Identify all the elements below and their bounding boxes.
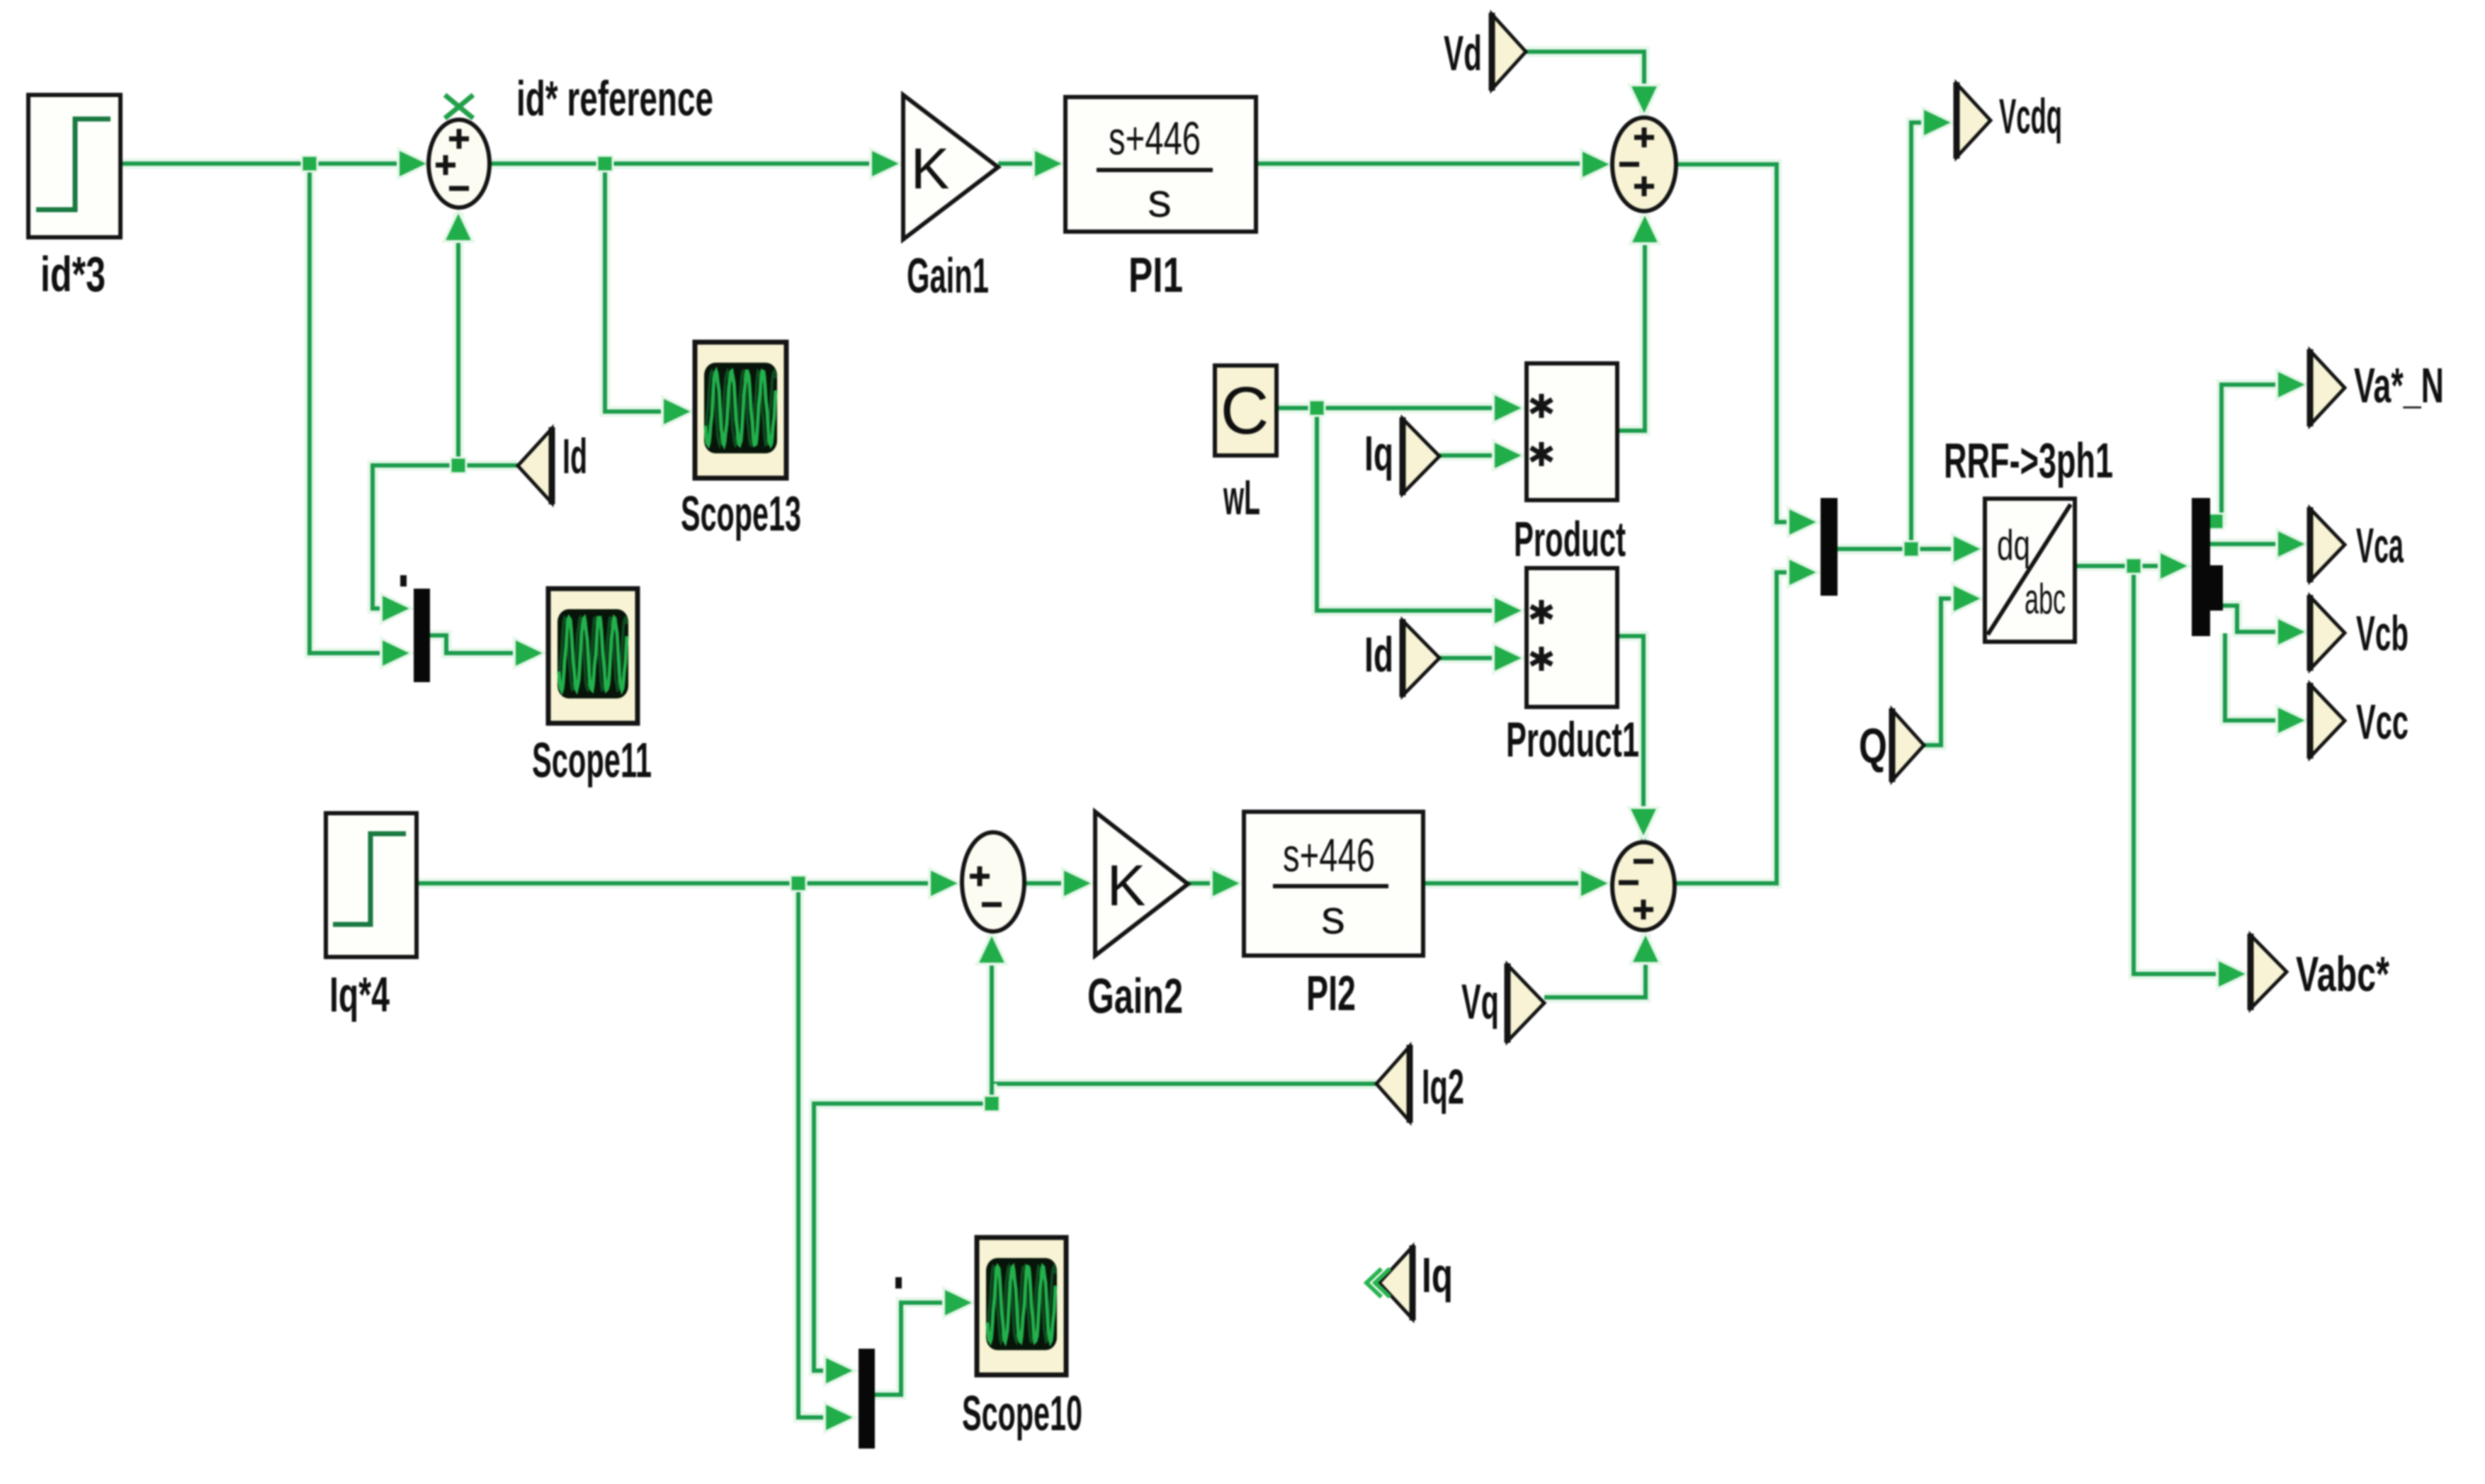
wire sum2 to mux input1 <box>1676 164 1794 522</box>
svg-text:id*3: id*3 <box>40 247 106 302</box>
wire demux out2 to Vca <box>2210 539 2281 550</box>
junction Id branch <box>451 458 466 473</box>
wire sum4 to mux input2 <box>1675 572 1794 883</box>
chevron on Iq tag <box>1366 1269 1390 1297</box>
port input Id (lower) <box>1403 619 1439 697</box>
arrowhead into mux Scope11 in1 <box>381 594 412 623</box>
wire Iq2 branch to mux Scope10 input1 <box>814 1084 992 1371</box>
arrowhead into sum3 left <box>929 868 961 898</box>
arrowhead into Vcb port <box>2277 617 2308 647</box>
port output Vabc* <box>2251 934 2287 1010</box>
junction demux out1 stub <box>2208 514 2224 529</box>
arrowhead into sum2 left <box>1581 149 1612 179</box>
arrowhead into PI1 <box>1034 149 1065 179</box>
wire mux to Scope10 <box>875 1303 948 1395</box>
wire sum1 to Gain1 <box>489 159 873 169</box>
port output Vcdq <box>1957 82 1991 159</box>
gain block Gain1 <box>903 95 998 239</box>
wire id*3 to sum1 <box>120 159 401 169</box>
svg-text:Iq2: Iq2 <box>1422 1059 1464 1114</box>
wire Gain2 to PI2 <box>1188 878 1216 889</box>
svg-text:Scope11: Scope11 <box>532 732 652 788</box>
arrowhead into Product1 in1 <box>1493 596 1524 625</box>
svg-text:Vabc*: Vabc* <box>2296 946 2390 1002</box>
mux mux for dq-abc <box>1821 498 1838 596</box>
sum junction Sum3 <box>962 832 1024 931</box>
sum junction Sum4 <box>1612 842 1675 930</box>
wire Iq to Product input2 <box>1439 451 1498 461</box>
svg-text:Iq: Iq <box>1364 426 1393 481</box>
svg-text:Iq*4: Iq*4 <box>329 967 390 1022</box>
tick above mux Scope10 <box>895 1277 902 1288</box>
arrowhead into sum2 top <box>1629 85 1659 116</box>
wire wL to Product input1 <box>1277 403 1498 414</box>
mux mux for Scope10 <box>859 1349 875 1449</box>
arrowhead into Scope10 <box>944 1288 975 1318</box>
arrowhead into Vabc* port <box>2217 959 2248 989</box>
mark X above sum1 <box>445 95 473 118</box>
wire Iq*4 branch to mux Scope10 input2 <box>798 883 827 1417</box>
junction wL branch <box>1309 400 1325 416</box>
arrowhead into Vcc port <box>2277 706 2308 735</box>
svg-text:PI1: PI1 <box>1128 247 1183 302</box>
svg-text:s: s <box>1321 890 1345 944</box>
arrowhead into mux Scope10 in1 <box>825 1356 856 1386</box>
wire Iq2 to sum3 bottom <box>992 935 1376 1084</box>
wire branch to Scope13 <box>605 164 667 412</box>
svg-text:abc: abc <box>2025 575 2066 623</box>
junction Vcdq branch <box>1903 541 1919 557</box>
transfer fn block PI2 <box>1244 812 1423 956</box>
svg-text:Scope13: Scope13 <box>681 486 801 541</box>
constant block C (wL) <box>1215 366 1277 455</box>
svg-text:s: s <box>1148 174 1172 227</box>
port output Vcb <box>2310 595 2345 671</box>
wire Id to Product1 input2 <box>1439 653 1498 664</box>
svg-text:Iq: Iq <box>1422 1247 1453 1303</box>
arrowhead into sum4 top <box>1629 808 1658 839</box>
svg-text:PI2: PI2 <box>1306 965 1356 1021</box>
wire branch to Vcdq port <box>1911 123 1928 549</box>
svg-text:C: C <box>1221 373 1269 448</box>
wire Vq to sum4 bottom <box>1544 934 1646 997</box>
wire Q to dq-abc input2 <box>1924 599 1958 745</box>
port input Id (flipped) <box>518 427 552 504</box>
junction Vabc* branch <box>2126 558 2141 574</box>
step source Iq*4 <box>326 813 417 957</box>
svg-text:RRF->3ph1: RRF->3ph1 <box>1944 433 2113 488</box>
arrowhead into Vcdq port <box>1923 108 1954 137</box>
arrowhead into Va*_N port <box>2277 370 2308 400</box>
svg-text:Vq: Vq <box>1461 974 1499 1029</box>
wire Iq*4 to sum3 <box>417 878 934 889</box>
wire sum3 to Gain2 <box>1025 878 1066 889</box>
arrowhead into dq-abc in1 <box>1952 534 1983 564</box>
sum junction Sum1 <box>429 120 489 208</box>
port input Q <box>1892 708 1924 782</box>
arrowhead into sum1 bottom <box>443 210 473 242</box>
arrowhead into Vca port <box>2277 529 2308 559</box>
wire mux to dq-abc input1 <box>1838 544 1958 555</box>
svg-text:Q: Q <box>1859 718 1887 774</box>
svg-text:wL: wL <box>1223 470 1260 525</box>
svg-text:s+446: s+446 <box>1109 112 1201 164</box>
port input Iq2 (flipped) <box>1376 1045 1410 1123</box>
arrowhead into sum4 left <box>1580 868 1611 898</box>
port input Vd <box>1492 13 1526 91</box>
scope block Scope11 <box>548 589 638 723</box>
port output Va*_N <box>2310 349 2345 426</box>
wire Product to sum2 bottom <box>1617 215 1645 431</box>
svg-text:Vca: Vca <box>2356 518 2404 573</box>
arrowhead into Product in1 <box>1493 393 1524 423</box>
svg-text:Id: Id <box>1364 627 1393 682</box>
step source id*3 <box>28 95 120 237</box>
junction id*3 branch <box>302 156 317 171</box>
wire mux to Scope11 <box>430 635 517 653</box>
wire PI1 to sum2 <box>1256 159 1584 169</box>
arrowhead into Scope11 <box>514 638 545 668</box>
junction Scope13 branch <box>597 156 613 171</box>
svg-text:Vcb: Vcb <box>2356 606 2408 661</box>
tick above mux Scope11 <box>400 575 407 587</box>
wire Gain1 to PI1 <box>998 159 1038 169</box>
sum junction Sum2 <box>1612 118 1676 211</box>
port tag Iq (flipped) <box>1379 1245 1413 1320</box>
arrowhead into PI2 <box>1211 868 1242 898</box>
port input Iq <box>1403 417 1439 495</box>
arrowhead into Gain2 <box>1063 868 1094 898</box>
svg-text:id* reference: id* reference <box>516 71 713 126</box>
svg-text:Gain2: Gain2 <box>1087 968 1183 1024</box>
svg-text:Vcc: Vcc <box>2356 694 2408 749</box>
arrowhead into mux Scope10 in2 <box>825 1403 856 1432</box>
arrowhead into sum4 bottom <box>1631 932 1660 963</box>
gain block Gain2 <box>1095 812 1188 956</box>
arrowhead into Product1 in2 <box>1493 643 1524 673</box>
wire Id to mux Scope11 input1 <box>373 465 518 608</box>
wire Vd to sum2 top <box>1526 52 1644 119</box>
arrowhead into sum2 bottom <box>1630 213 1660 244</box>
transform block dq/abc (RRF->3ph1) <box>1985 499 2075 642</box>
svg-text:Product: Product <box>1514 511 1626 567</box>
port output Vca <box>2310 507 2345 582</box>
wire dq-abc to demux <box>2075 561 2165 572</box>
transfer fn block PI1 <box>1065 97 1256 232</box>
junction Iq*4 branch <box>791 876 806 891</box>
svg-text:K: K <box>1107 854 1146 918</box>
wire Product1 to sum4 top <box>1617 636 1643 840</box>
junction Iq2 branch <box>984 1096 1000 1111</box>
svg-text:Vcdq: Vcdq <box>1999 89 2062 144</box>
scope block Scope13 <box>695 342 786 478</box>
arrowhead into dq-abc in2 <box>1952 584 1983 613</box>
product block Product <box>1527 363 1617 500</box>
arrowhead into Product in2 <box>1493 441 1524 470</box>
arrowhead into sum3 bottom <box>977 933 1007 964</box>
svg-text:Va*_N: Va*_N <box>2354 358 2444 413</box>
wire demux out3 to Vcb <box>2223 606 2281 632</box>
mux mux for Scope11 <box>414 589 430 682</box>
scope block Scope10 <box>977 1237 1066 1375</box>
arrowhead into mux in2 <box>1788 557 1819 587</box>
svg-text:K: K <box>911 137 950 201</box>
demux after dq-abc <box>2192 498 2223 636</box>
arrowhead into sum1 <box>398 149 429 179</box>
svg-text:Scope10: Scope10 <box>962 1386 1082 1441</box>
wire branch to Vabc* port <box>2134 566 2223 974</box>
arrowhead into Gain1 <box>871 149 902 179</box>
wire Id branch up to sum1 minus input <box>453 213 464 465</box>
wire demux out1 to Va*_N <box>2210 385 2281 521</box>
svg-text:Vd: Vd <box>1444 26 1482 81</box>
arrowhead into mux in1 <box>1788 507 1819 537</box>
port output Vcc <box>2310 683 2345 759</box>
svg-text:s+446: s+446 <box>1283 829 1375 881</box>
arrowhead into mux Scope11 in2 <box>381 638 412 668</box>
arrowhead into demux <box>2159 551 2190 581</box>
wire PI2 to sum4 <box>1423 878 1583 889</box>
svg-text:dq: dq <box>1997 521 2030 569</box>
product block Product1 <box>1527 568 1617 707</box>
svg-text:Id: Id <box>562 429 587 484</box>
wire id*3 branch to mux Scope11 input2 <box>310 164 388 653</box>
port input Vq <box>1507 963 1544 1043</box>
wire demux out4 to Vcc <box>2225 633 2281 720</box>
svg-text:Gain1: Gain1 <box>907 248 989 303</box>
svg-text:Product1: Product1 <box>1506 712 1639 767</box>
arrowhead into Scope13 <box>662 397 694 426</box>
wire wL branch to Product1 input1 <box>1317 408 1498 611</box>
